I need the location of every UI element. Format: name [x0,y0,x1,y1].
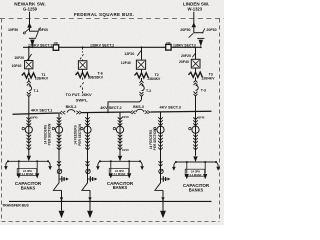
svg-text:PER SECTION: PER SECTION [78,123,82,145]
svg-text:T-2: T-2 [146,89,151,93]
svg-text:12F40: 12F40 [121,61,131,65]
svg-text:138KV SECT.2: 138KV SECT.2 [90,44,114,48]
svg-text:FEDERAL SQUARE BUS.: FEDERAL SQUARE BUS. [74,12,134,17]
svg-text:12F20: 12F20 [124,52,134,56]
svg-text:138KV SECT.3: 138KV SECT.3 [173,43,196,47]
svg-text:2.4 MVAR: 2.4 MVAR [22,172,34,176]
svg-text:PER SECTION: PER SECTION [48,123,52,145]
svg-text:BKS-2: BKS-2 [66,105,77,109]
svg-text:G-1259: G-1259 [23,6,38,11]
svg-text:20F20: 20F20 [181,54,191,58]
svg-text:SWPL.: SWPL. [76,97,89,102]
svg-text:20F40: 20F40 [179,60,189,64]
svg-text:10F: 10F [53,41,58,45]
svg-text:10F20: 10F20 [14,56,24,60]
svg-text:30F40: 30F40 [198,116,205,119]
svg-text:10F50: 10F50 [8,28,18,32]
svg-text:138/4KV: 138/4KV [201,76,215,80]
svg-text:138/4KV: 138/4KV [35,76,49,80]
svg-text:BKS-3: BKS-3 [133,105,144,109]
svg-text:23F: 23F [166,41,171,45]
svg-text:T-1: T-1 [33,89,38,93]
svg-text:2.4 MVAR: 2.4 MVAR [190,173,202,177]
svg-text:138/4KV: 138/4KV [147,77,161,81]
svg-text:PER SECTION: PER SECTION [153,128,157,150]
svg-text:W-1323: W-1323 [188,6,203,11]
svg-text:10F40: 10F40 [12,64,22,68]
svg-text:10F40: 10F40 [31,117,38,120]
svg-text:4KV SECT.3: 4KV SECT.3 [160,106,181,110]
svg-text:4KV SECT.2: 4KV SECT.2 [100,106,121,110]
svg-text:20F50: 20F50 [180,28,190,32]
svg-text:T-3: T-3 [201,89,206,93]
svg-text:20F60: 20F60 [206,28,216,32]
svg-text:138/26KV: 138/26KV [88,75,104,79]
svg-text:11F40: 11F40 [122,116,129,119]
svg-text:BANKS: BANKS [21,185,36,190]
svg-text:BANKS: BANKS [113,185,128,190]
svg-text:BANKS: BANKS [189,187,204,192]
svg-text:TRANSFER BUS: TRANSFER BUS [2,203,29,207]
svg-text:4KV SECT.1: 4KV SECT.1 [31,108,52,112]
svg-text:11F20: 11F20 [122,149,129,152]
svg-text:2.4 MVAR: 2.4 MVAR [114,172,126,176]
